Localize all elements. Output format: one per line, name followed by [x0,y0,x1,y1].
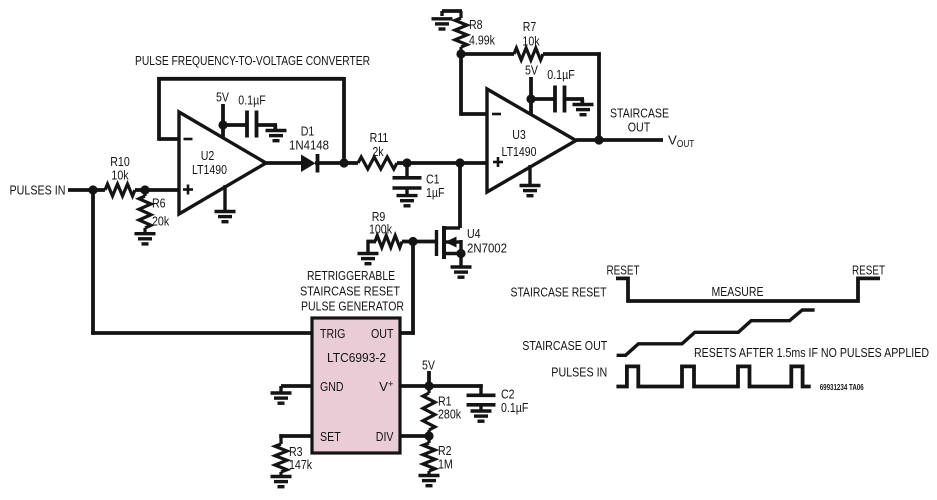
svg-text:5V: 5V [422,358,435,373]
svg-text:PULSE GENERATOR: PULSE GENERATOR [301,299,404,314]
transistor Q U4 2N7002 [444,226,460,229]
wire U2 feedback left vertical [157,77,161,141]
node 5V/bypass junction U3 [526,94,535,103]
wire U2 feedback minus input [159,137,180,141]
resistor R11 2k [358,157,397,169]
U3 ground pin wire [528,165,531,184]
wire PULSES IN lead [68,188,93,192]
wire node A down to TRIG [91,190,95,335]
capacitor 0.1uF bypass U2 [245,111,249,138]
ground C2 [471,409,492,412]
node J junction V+/R1/C2 [424,381,433,390]
wire bypass cap to ground U3 [565,97,585,101]
svg-text:U3: U3 [512,127,526,142]
wire node C to R11 [344,161,358,165]
svg-text:STAIRCASE: STAIRCASE [610,105,669,120]
IC U1 LTC6993-2 box [312,318,400,453]
capacitor C2 0.1uF [479,384,482,393]
svg-text:LT1490: LT1490 [502,144,537,159]
ground R9 left [367,240,377,244]
wire node D to node E [407,161,487,165]
svg-text:2N7002: 2N7002 [467,241,507,256]
svg-text:STAIRCASE RESET: STAIRCASE RESET [300,284,400,299]
wire 5V lead LTC [427,371,431,386]
svg-text:STAIRCASE OUT: STAIRCASE OUT [522,338,607,353]
ground bypass cap U2 [266,129,287,132]
svg-text:5V: 5V [216,90,229,105]
svg-text:R6: R6 [152,196,166,211]
ground C1 [397,194,418,197]
U2 ground pin wire [223,185,226,210]
svg-text:2k: 2k [372,144,383,159]
wire R7 feedback vertical [597,52,601,140]
op-amp U3 LT1490 triangle [487,89,576,192]
svg-text:MEASURE: MEASURE [712,284,764,299]
svg-text:R11: R11 [370,130,389,145]
svg-text:PULSES IN: PULSES IN [551,365,607,380]
node 5V/bypass junction U2 [218,120,227,129]
capacitor C1 1uF [405,163,408,177]
svg-text:R8: R8 [469,17,483,32]
node E junction drain/U3 input [455,158,464,167]
svg-text:RESETS AFTER 1.5ms IF NO PULSE: RESETS AFTER 1.5ms IF NO PULSES APPLIED [694,345,929,360]
node A junction PULSES IN [88,185,97,194]
node G U3 output/feedback [594,135,603,144]
wire OUT riser vertical [411,242,415,335]
ground R8 top [442,9,462,13]
wire node F to R7 [461,52,514,56]
svg-text:DIV: DIV [376,429,394,444]
resistor R6 [143,190,146,196]
wire D1 to node C [315,161,344,165]
svg-text:U4: U4 [467,226,481,241]
svg-text:RESET: RESET [852,263,885,278]
svg-text:GND: GND [320,379,344,394]
wire DIV pin [400,434,429,438]
svg-text:1N4148: 1N4148 [289,138,329,153]
ground R6 [135,232,156,235]
svg-text:4.99k: 4.99k [469,33,495,48]
svg-text:147k: 147k [289,457,312,472]
wire 5V lead U3 [529,77,533,114]
svg-text:RETRIGGERABLE: RETRIGGERABLE [307,268,395,283]
wire R7 to right vertical [543,52,601,56]
U3 minus input symbol [492,113,501,116]
wire TRIG horizontal [91,331,312,335]
resistor R8 4.99k [459,11,462,18]
wire R10 to node B [135,188,145,192]
svg-text:0.1µF: 0.1µF [238,93,265,108]
svg-text:D1: D1 [301,124,315,139]
U2 plus input symbol [183,188,193,191]
svg-text:TRIG: TRIG [320,326,345,341]
wire U2 feedback right vertical [342,77,346,163]
node D junction R11/C1 [402,158,411,167]
svg-text:RESET: RESET [607,263,640,278]
wire node A to R10 [93,188,105,192]
svg-text:0.1µF: 0.1µF [547,67,574,82]
ground U4 source [459,254,462,267]
wire U3 output [576,138,663,142]
resistor R1 280k [427,386,430,393]
node K junction R1/R2/DIV [424,431,433,440]
waveform STAIRCASE OUT staircase [617,310,815,355]
svg-text:U2: U2 [201,148,215,163]
wire to bypass cap U2 [223,123,247,127]
svg-text:SET: SET [320,429,341,444]
node I junction R9/OUT riser [408,237,417,246]
wire U2 feedback top [157,77,344,81]
ground U2 [215,210,236,213]
wire node J to C2 [429,384,483,388]
svg-text:280k: 280k [438,407,461,422]
svg-text:PULSES IN: PULSES IN [10,182,66,197]
wire SET pin [279,434,312,438]
resistor R9 100k [375,236,402,248]
svg-text:5V: 5V [525,63,538,78]
wire drain vertical U4 [458,163,462,228]
ground U3 [520,184,541,187]
svg-text:69931234 TA06: 69931234 TA06 [820,383,864,392]
svg-text:1µF: 1µF [426,185,445,200]
wire U2 output to D1 [266,161,302,165]
wire OUT pin to riser [400,331,415,335]
wire V+ pin [400,384,429,388]
wire to bypass cap U3 [531,97,555,101]
wire R9 to gate [402,240,437,244]
svg-text:20k: 20k [152,214,169,229]
U3 plus input symbol [493,161,503,164]
svg-text:100k: 100k [369,222,392,237]
svg-text:STAIRCASE RESET: STAIRCASE RESET [511,285,607,300]
resistor R2 1M [427,436,430,443]
svg-text:LT1490: LT1490 [192,162,227,177]
node F junction R8/R7/U3 minus [456,49,465,58]
waveform STAIRCASE RESET [616,278,880,301]
node C junction D1/feedback/R11 [339,158,348,167]
svg-text:PULSE FREQUENCY-TO-VOLTAGE CON: PULSE FREQUENCY-TO-VOLTAGE CONVERTER [135,53,370,68]
svg-text:OUT: OUT [628,120,651,135]
resistor R7 10k [514,48,543,60]
ground GND pin [279,386,282,392]
capacitor 0.1uF bypass U3 [553,86,557,113]
U2 minus input symbol [184,138,193,141]
wire bypass cap to ground U2 [257,123,278,127]
ground bypass cap U3 [573,103,594,106]
svg-text:10k: 10k [522,34,539,49]
svg-text:0.1µF: 0.1µF [501,400,528,415]
ground R2 [419,474,440,477]
wire node F down to U3 minus [459,54,463,116]
node H source/ground junction U4 [456,249,465,258]
svg-text:R7: R7 [523,19,537,34]
wire node B to U2 +input [145,188,179,192]
svg-text:LTC6993-2: LTC6993-2 [327,350,386,365]
op-amp U2 LT1490 triangle [179,112,266,214]
svg-text:10k: 10k [111,168,128,183]
ground R3 [271,475,292,478]
resistor R3 147k [279,434,282,444]
wire GND pin [281,384,312,388]
node B junction R10/R6 [140,185,149,194]
diode D1 1N4148 [301,155,316,173]
svg-text:OUT: OUT [371,326,394,341]
wire R11 to node D [397,161,407,165]
waveform PULSES IN [616,366,810,386]
svg-text:1M: 1M [438,457,453,472]
wire 5V lead U2 [221,104,225,137]
resistor R10 [105,184,135,196]
